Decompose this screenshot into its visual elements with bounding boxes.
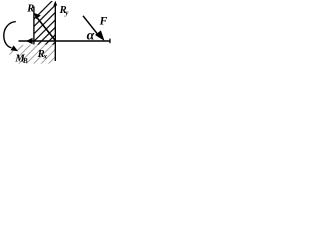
force F arrow (down-right onto beam tip) — [83, 16, 99, 36]
svg-text:F: F — [99, 16, 108, 28]
reaction Rx arrowhead (left, on beam axis) — [26, 38, 33, 44]
beam end tick — [109, 39, 110, 44]
reaction Ry arrow (wall face vertical line, arrowhead up) — [54, 2, 56, 61]
wall left edge — [33, 7, 35, 45]
svg-text:R: R — [26, 3, 34, 14]
svg-text:α: α — [87, 29, 95, 44]
svg-text:y: y — [64, 9, 69, 17]
moment M_B arc with arrowhead — [4, 22, 16, 48]
wall hatching upper (dark) — [7, 0, 98, 46]
beam axis line — [19, 40, 110, 42]
wall hatching lower (light, below beam) — [4, 44, 68, 64]
light hatch tick left of M_B — [9, 51, 13, 55]
reaction R arrow (diagonal up-left) — [38, 18, 56, 40]
svg-text:B: B — [22, 57, 28, 64]
svg-text:x: x — [43, 53, 48, 61]
